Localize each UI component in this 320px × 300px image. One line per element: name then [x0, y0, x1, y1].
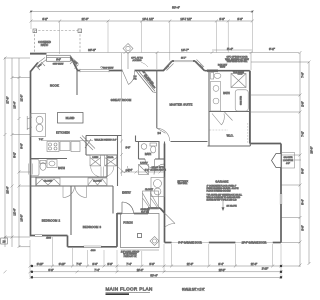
svg-text:LNDRY: LNDRY [140, 163, 148, 165]
svg-text:7'-1": 7'-1" [76, 262, 81, 266]
master bath vanity [211, 82, 221, 112]
sink vanity [47, 160, 57, 168]
svg-text:BATH: BATH [58, 166, 65, 170]
svg-text:CLOSET: CLOSET [145, 189, 154, 191]
wall nook angled right [71, 57, 78, 71]
wall entry front right of door [134, 213, 148, 215]
bedroom door arcs [63, 186, 87, 198]
wall garage bottom middle pier [209, 242, 236, 244]
porch outline [121, 214, 160, 248]
garage keynote pentagon [272, 154, 282, 168]
svg-text:BATH: BATH [223, 92, 230, 95]
window bedroom2 bottom [35, 235, 42, 237]
central vertical dim line [120, 53, 123, 176]
svg-text:12'-4": 12'-4" [13, 208, 17, 215]
svg-text:3'-10": 3'-10" [37, 262, 44, 266]
master bath shower [231, 74, 246, 88]
hall door arc near entry [118, 166, 128, 173]
wall garage top [250, 143, 281, 145]
svg-text:8'-0": 8'-0" [56, 59, 61, 61]
garage keynote box [282, 153, 302, 169]
bath door diagonals [212, 112, 233, 125]
svg-text:11'-6": 11'-6" [187, 262, 193, 266]
svg-text:SCALE: 1/4" = 1'-0": SCALE: 1/4" = 1'-0" [182, 287, 205, 291]
svg-text:5040 WDW: 5040 WDW [103, 67, 114, 69]
wall bedroom2 bottom [30, 235, 68, 237]
svg-text:9'-6": 9'-6" [20, 143, 24, 149]
svg-text:16'-7 1/2": 16'-7 1/2" [180, 17, 191, 21]
interior dim labels 36'-3" 16'-7" 5'-4" [88, 47, 275, 52]
svg-text:4030: 4030 [91, 250, 97, 252]
wall master boxout angled right [195, 61, 205, 71]
wall bedroom3 right [116, 213, 118, 247]
garage note paragraph [207, 185, 243, 201]
dimension row 2 labels [42, 17, 242, 21]
wall great room top right of door [135, 70, 165, 72]
svg-text:3'-8": 3'-8" [107, 262, 112, 266]
svg-text:5'-4": 5'-4" [301, 199, 305, 205]
svg-text:7'-4": 7'-4" [126, 262, 131, 266]
bay window box at nook [47, 55, 71, 61]
svg-text:WDW: WDW [220, 67, 225, 69]
right dimension columns [251, 51, 311, 267]
door great room top with arc [123, 71, 135, 85]
hall door arcs [91, 167, 114, 177]
svg-text:ACCESS: ACCESS [133, 59, 143, 62]
svg-text:23'-4": 23'-4" [6, 186, 10, 193]
hall to garage door arc [154, 164, 165, 175]
wall step between bedrooms [67, 236, 69, 247]
svg-text:CLOSET: CLOSET [44, 181, 53, 183]
kitchen island [58, 113, 84, 124]
toilet [40, 163, 46, 171]
master bath toilet [211, 73, 221, 80]
svg-text:7'-6": 7'-6" [301, 72, 305, 78]
kitchen sink counter left [31, 114, 46, 137]
nook great room divider stub [76, 71, 78, 96]
svg-text:6032 TUB: 6032 TUB [241, 95, 243, 105]
svg-text:5'-2": 5'-2" [13, 152, 17, 158]
svg-text:16'-7": 16'-7" [181, 58, 186, 60]
svg-text:TEMPERED LOW SILL: TEMPERED LOW SILL [227, 61, 249, 63]
svg-text:MAIN FLOOR PLAN: MAIN FLOOR PLAN [106, 287, 153, 292]
interior wall kitchen south / hall [31, 136, 122, 236]
wall garage bottom left pier [165, 242, 172, 244]
master bath walls [208, 71, 251, 146]
window bedroom3 bottom [84, 246, 101, 248]
master suite left wall [157, 71, 208, 142]
tub [31, 160, 40, 176]
interior dim row y 170 [122, 171, 165, 174]
wall garage bottom right pier [273, 242, 281, 244]
master door arc [157, 128, 170, 141]
svg-text:BEDROOM 3: BEDROOM 3 [83, 225, 102, 229]
garage entry door arc [165, 213, 176, 228]
wall master top right [205, 70, 250, 72]
window symbol circle [101, 66, 103, 68]
wall house right (master/bath) [249, 71, 251, 144]
svg-text:9'-8": 9'-8" [48, 268, 53, 272]
angled window hatch right of bay [70, 58, 79, 69]
svg-text:27'-8": 27'-8" [6, 96, 10, 103]
left edge tag box [1, 238, 8, 244]
svg-text:23'-8": 23'-8" [219, 268, 226, 272]
porch step [121, 249, 160, 251]
left dimension columns [4, 57, 31, 249]
kitchen counter bottom [41, 141, 93, 152]
entry closet [143, 191, 159, 209]
angled window hatch left of bay [36, 58, 47, 71]
wall nook left vertical [30, 71, 32, 237]
svg-text:29'-8": 29'-8" [310, 146, 314, 153]
svg-text:3'-6": 3'-6" [301, 225, 305, 231]
bottom row end dots [31, 265, 282, 279]
patio post top-left [33, 29, 37, 33]
keynote diamond symbol top [123, 44, 133, 70]
exterior walls [30, 54, 281, 247]
window great room top wall [80, 70, 109, 72]
porch column [138, 234, 142, 238]
svg-text:7'-2": 7'-2" [301, 131, 305, 137]
svg-text:8'-2": 8'-2" [42, 17, 47, 21]
svg-text:PATIO: PATIO [41, 43, 48, 47]
bath (bedrooms) fixtures [31, 160, 58, 176]
svg-text:BATH: BATH [145, 153, 151, 156]
svg-text:16'-1 1/2": 16'-1 1/2" [142, 17, 153, 21]
svg-text:2'-8": 2'-8" [301, 101, 305, 107]
wall garage left [164, 144, 166, 243]
bottom dim labels [37, 262, 269, 278]
window master top wall [207, 70, 218, 72]
svg-text:50'-4": 50'-4" [150, 274, 157, 278]
svg-text:2% SLOPE: 2% SLOPE [227, 206, 238, 208]
closet bedroom2 with bifold [36, 178, 60, 186]
svg-text:7'-4": 7'-4" [94, 268, 99, 272]
master tub [235, 90, 248, 111]
svg-text:11'-6": 11'-6" [251, 262, 257, 266]
svg-text:13'-4": 13'-4" [13, 101, 17, 108]
svg-text:TILE SHWR: TILE SHWR [233, 72, 244, 74]
svg-text:NOOK: NOOK [50, 84, 59, 88]
garage door sill right [235, 242, 272, 244]
garage door sill left [172, 242, 209, 244]
svg-text:10'-8": 10'-8" [20, 214, 24, 221]
dimension row 2 [30, 20, 254, 23]
master boxout window hatch right [195, 60, 205, 70]
powder bath door arc [145, 159, 155, 169]
svg-text:3'-10": 3'-10" [59, 262, 66, 266]
patio post top-right [78, 29, 82, 33]
svg-text:LINEN: LINEN [92, 157, 98, 159]
svg-text:3'-8": 3'-8" [149, 262, 154, 266]
svg-text:MASTER SUITE: MASTER SUITE [169, 103, 192, 107]
title underline [106, 291, 151, 293]
wall master boxout top [172, 60, 195, 62]
wall nook angled left [31, 63, 39, 72]
svg-text:3'-0": 3'-0" [92, 262, 97, 266]
powder bath fixtures [141, 143, 156, 153]
linen closet boxes in hall [90, 155, 117, 166]
svg-text:5'-4": 5'-4" [227, 47, 233, 51]
window at bath left wall [29, 164, 33, 175]
svg-text:4'-0": 4'-0" [286, 163, 290, 165]
svg-text:ENTRY: ENTRY [122, 191, 131, 195]
wall patio bottom left [30, 53, 47, 55]
utility closet water heater furnace [151, 178, 165, 197]
svg-text:16'-4": 16'-4" [137, 268, 144, 272]
svg-text:8'-4": 8'-4" [218, 262, 223, 266]
svg-text:9'-0": 9'-0" [126, 147, 131, 150]
svg-text:PORCH: PORCH [123, 220, 132, 224]
interior dimension string y=52 [30, 50, 299, 70]
svg-text:W.I.C.: W.I.C. [227, 135, 234, 138]
corner fireplace great room [137, 71, 157, 93]
svg-text:11'-8": 11'-8" [20, 95, 24, 102]
master boxout window band [174, 60, 193, 62]
wall great room top [77, 70, 123, 72]
svg-text:4'-4": 4'-4" [128, 169, 133, 172]
svg-text:9'-2": 9'-2" [269, 47, 275, 51]
svg-text:ACCESS ABOVE: ACCESS ABOVE [150, 168, 166, 171]
svg-text:4030: 4030 [46, 238, 52, 240]
porch keynote diamond [150, 237, 159, 246]
svg-text:3'-8": 3'-8" [237, 17, 242, 21]
svg-text:GAS MTR: GAS MTR [283, 156, 293, 159]
svg-text:PRECAST OK: PRECAST OK [124, 255, 138, 258]
svg-text:36'-3": 36'-3" [88, 48, 96, 52]
wall entry front [117, 213, 122, 215]
window at kitchen sink [27, 116, 32, 130]
svg-text:BEDROOM 2: BEDROOM 2 [42, 219, 61, 223]
svg-text:GARAGE: GARAGE [215, 180, 228, 184]
wall bedroom3 bottom [68, 246, 118, 248]
svg-text:HOUSE W/ 5/8" TYPE X ON CLG: HOUSE W/ 5/8" TYPE X ON CLG [207, 200, 237, 202]
svg-text:KITCHEN: KITCHEN [56, 131, 70, 135]
bottom dimension rows [4, 265, 283, 279]
covered patio dashed outline [35, 31, 81, 54]
svg-text:5'-0": 5'-0" [301, 168, 305, 174]
svg-text:FLOOR TOWARD DOORS: FLOOR TOWARD DOORS [207, 189, 232, 192]
left dim rotated labels [6, 95, 24, 222]
svg-text:9'-0" GARAGE DOOR: 9'-0" GARAGE DOOR [178, 242, 202, 245]
svg-text:CLOS.: CLOS. [108, 157, 114, 159]
svg-text:16: 16 [2, 240, 6, 244]
svg-text:21'-0": 21'-0" [82, 17, 89, 21]
svg-text:2'-10": 2'-10" [262, 267, 269, 271]
garage right wall window [280, 194, 282, 204]
svg-text:3'-0" DR: 3'-0" DR [141, 211, 149, 213]
laundry box [139, 165, 149, 175]
right dim rotated labels [301, 72, 314, 231]
extension lines from top dims [31, 12, 252, 61]
pantry corner diagonal [80, 136, 95, 151]
svg-text:WALK-IN PANTRY 4'-0": WALK-IN PANTRY 4'-0" [94, 138, 116, 141]
svg-text:LOCATION: LOCATION [283, 159, 294, 162]
svg-text:16'-0" GARAGE DOOR: 16'-0" GARAGE DOOR [242, 242, 267, 245]
front door arc [122, 202, 134, 214]
svg-text:3'-8": 3'-8" [219, 17, 224, 21]
svg-text:CLOSET: CLOSET [93, 181, 102, 183]
garage slope arrow [222, 201, 224, 211]
svg-text:GREAT ROOM: GREAT ROOM [111, 98, 132, 102]
bottom extension lines [30, 237, 281, 277]
powder bath walls [136, 136, 165, 160]
svg-text:THIS WALL: THIS WALL [178, 182, 188, 185]
master boxout window hatch left [165, 62, 174, 71]
wall garage right [280, 144, 282, 243]
wic rod dashed [247, 123, 249, 144]
svg-text:50'-4": 50'-4" [172, 6, 180, 10]
svg-text:16'-7": 16'-7" [181, 48, 189, 52]
svg-text:8050 WDW: 8050 WDW [53, 64, 64, 66]
closet bedroom3 with bifold [88, 178, 107, 186]
dimension row 1 top overall [30, 10, 254, 13]
wall entry to garage jog [147, 208, 149, 214]
wall master boxout angled left [164, 61, 173, 71]
svg-text:ISLAND: ISLAND [66, 117, 75, 120]
